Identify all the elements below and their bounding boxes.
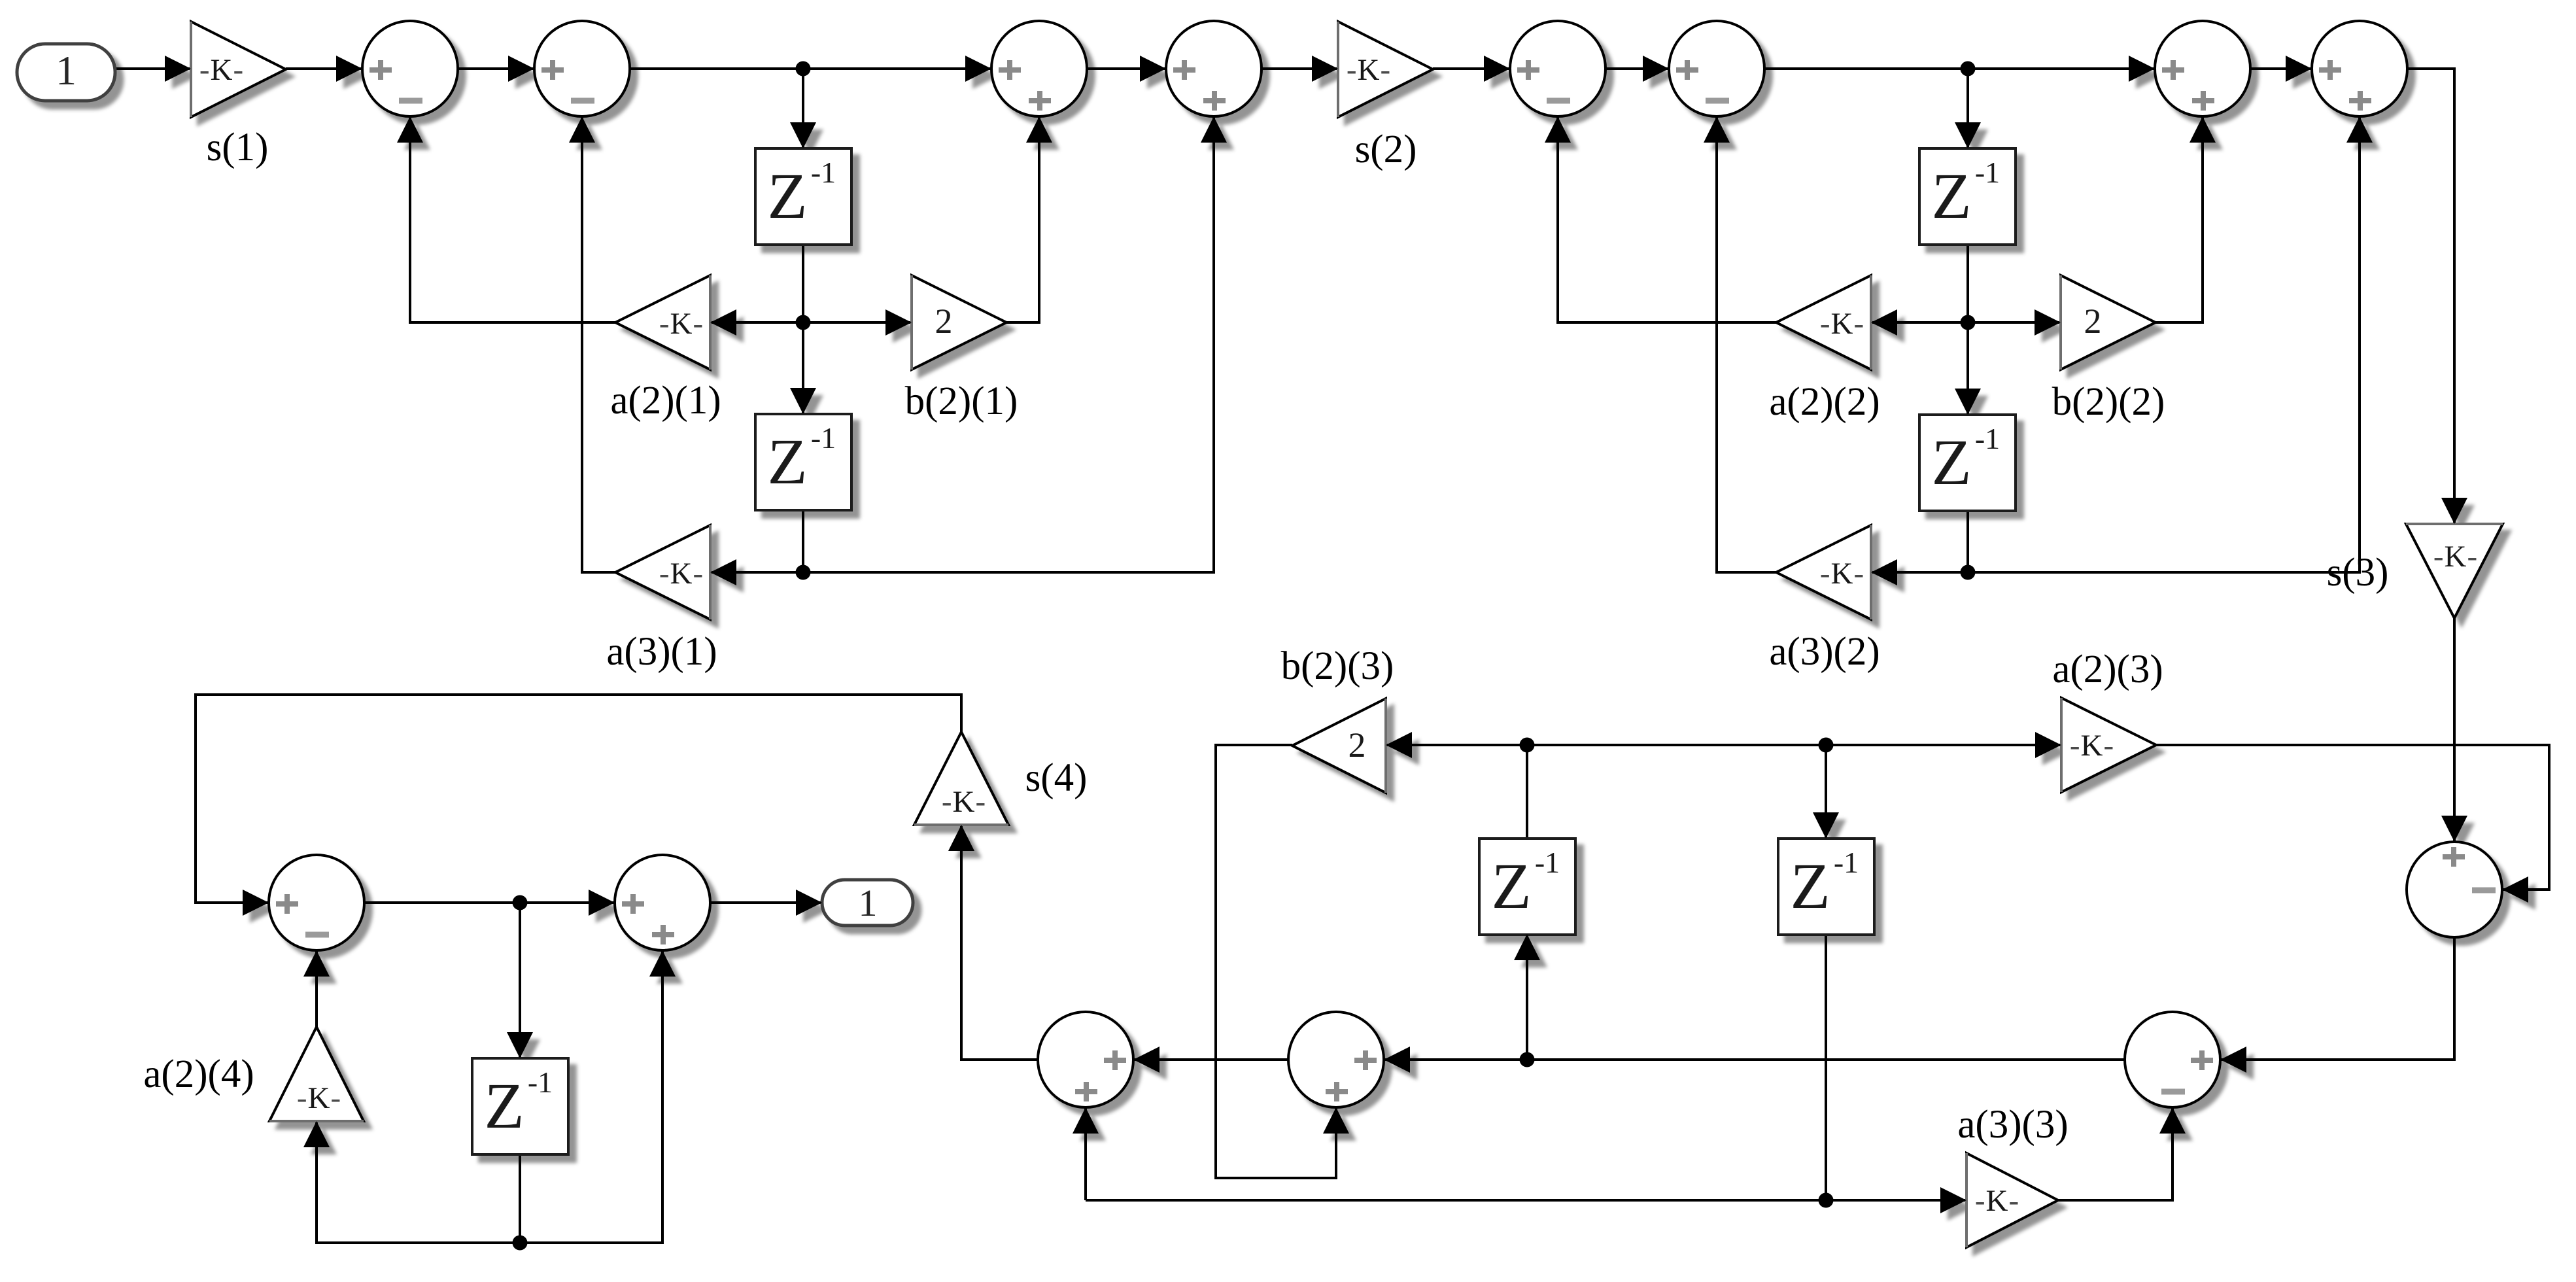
- svg-text:a(2)(1): a(2)(1): [610, 379, 721, 423]
- arrow into S3 bottom: [1026, 116, 1052, 143]
- arrow into S10 bottom: [649, 950, 676, 977]
- arrow into S12 bottom: [1323, 1107, 1349, 1134]
- junction node N1: [796, 61, 811, 77]
- wire S4 to s(2): [1262, 67, 1338, 70]
- arrow into S9 bottom: [303, 950, 330, 977]
- sign + of S9 (L): [276, 894, 298, 914]
- sum block S8: [2312, 21, 2407, 116]
- wire S8 to s(3): [2407, 69, 2454, 524]
- wire node N5 to S4: [803, 116, 1214, 572]
- sign + of S3 (B): [1029, 91, 1051, 111]
- wire Z5 to node N12: [519, 1154, 521, 1243]
- svg-text:a(2)(3): a(2)(3): [2052, 648, 2163, 691]
- wire S11 to s(4): [961, 825, 1038, 1060]
- svg-text:-K-: -K-: [1820, 557, 1864, 591]
- arrow into S11 bottom: [1073, 1107, 1099, 1134]
- sign - of S14 (B): [2161, 1089, 2185, 1095]
- sum block S2: [534, 21, 630, 116]
- wire a(2)(1) to S1: [410, 116, 615, 322]
- svg-text:-K-: -K-: [659, 557, 704, 591]
- wire S2 to S3 via node N1: [630, 67, 991, 70]
- input port In1: [17, 44, 115, 101]
- arrow into b(2)(1): [885, 309, 912, 336]
- arrow into a(2)(4): [303, 1121, 330, 1147]
- arrow into s(3): [2441, 498, 2467, 524]
- sign + of S10 (B): [652, 925, 674, 944]
- gain block b(2)(2): [2061, 275, 2155, 370]
- sign + of S11 (R): [1104, 1050, 1126, 1070]
- sign + of S7 (B): [2192, 91, 2214, 111]
- gain block a(2)(3): [2061, 698, 2156, 792]
- delay block Z4 z^-1: [1919, 415, 2016, 511]
- sign + of S14 (R): [2191, 1050, 2213, 1070]
- svg-text:-1: -1: [1535, 846, 1560, 879]
- svg-text:s(1): s(1): [207, 126, 269, 169]
- wire node N12 to a(2)(4): [317, 1121, 520, 1243]
- svg-text:-1: -1: [811, 156, 836, 189]
- sign + of S13 (T): [2443, 847, 2465, 867]
- wire b(2)(1) to S3: [1006, 116, 1039, 322]
- gain block a(3)(2): [1776, 525, 1871, 619]
- sum block S12: [1288, 1012, 1384, 1107]
- svg-text:a(3)(3): a(3)(3): [1957, 1103, 2068, 1147]
- gain block b(2)(3): [1292, 699, 1386, 793]
- svg-text:Z: Z: [1491, 850, 1531, 922]
- wire S10 to out1: [710, 901, 822, 904]
- arrow into S2: [508, 56, 534, 82]
- svg-text:-K-: -K-: [659, 307, 704, 341]
- output port Out1: [822, 880, 913, 926]
- arrow into a(3)(1): [710, 559, 736, 585]
- sign + of S1 (L): [369, 60, 392, 80]
- wire a(2)(3) to S13: [2156, 745, 2549, 890]
- sum block S13: [2407, 842, 2502, 937]
- arrow into S8 bottom: [2346, 116, 2373, 143]
- wire Z1 to Z2 via node N3: [802, 245, 804, 414]
- arrow into S5: [1484, 56, 1510, 82]
- svg-text:-K-: -K-: [199, 53, 244, 87]
- wire b(2)(3) to S12: [1216, 745, 1336, 1178]
- svg-text:s(2): s(2): [1355, 128, 1417, 171]
- wire node N8 down to Z7: [1825, 745, 1827, 839]
- wire S13 to S14: [2220, 937, 2454, 1060]
- sign + of S2 (L): [541, 60, 564, 80]
- sum block S7: [2155, 21, 2250, 116]
- sign + of S11 (B): [1075, 1082, 1097, 1101]
- arrow into S10 left: [589, 890, 615, 916]
- sign + of S12 (B): [1326, 1082, 1348, 1101]
- gain block a(2)(4): [269, 1027, 364, 1121]
- wire S7 to S8: [2250, 67, 2312, 70]
- sign - of S9 (B): [305, 932, 329, 938]
- arrow into S6 bottom: [1704, 116, 1730, 143]
- gain block a(3)(3): [1966, 1153, 2058, 1247]
- wire Z2 to node N5: [802, 510, 804, 572]
- arrow into S6: [1643, 56, 1669, 82]
- svg-text:-1: -1: [1975, 422, 2000, 455]
- wire node N3 to b(2)(1): [803, 321, 912, 324]
- junction node N12: [513, 1236, 528, 1251]
- wire a(3)(1) to S2: [582, 116, 615, 572]
- arrow into S11 right: [1133, 1047, 1159, 1073]
- arrow into S4 bottom: [1201, 116, 1227, 143]
- svg-text:b(2)(2): b(2)(2): [2052, 380, 2165, 424]
- svg-text:-1: -1: [528, 1065, 553, 1099]
- wire s(3) to S13: [2453, 618, 2456, 842]
- wire net up to S11: [1084, 1107, 1087, 1200]
- wire node N6 to a(3)(2): [1871, 571, 1968, 574]
- sum block S10: [615, 855, 710, 950]
- sign - of S13 (R): [2472, 888, 2496, 893]
- wire node N7 to b(2)(3): [1386, 744, 1527, 746]
- arrow into b(2)(2): [2035, 309, 2061, 336]
- wire node N4 to b(2)(2): [1968, 321, 2061, 324]
- wire S1 to S2: [458, 67, 534, 70]
- sign - of S5 (B): [1547, 98, 1570, 104]
- sum block S9: [269, 855, 364, 950]
- arrow into S9 left: [243, 890, 269, 916]
- svg-text:Z: Z: [767, 160, 807, 232]
- svg-text:Z: Z: [767, 425, 807, 498]
- gain block s(2): [1338, 22, 1433, 117]
- wire node N7 to a(2)(3) via node N8: [1527, 744, 2061, 746]
- sign + of S7 (L): [2162, 60, 2184, 80]
- delay block Z6 z^-1: [1479, 839, 1575, 935]
- arrow into a(3)(3): [1940, 1187, 1966, 1213]
- wire a(3)(2) to S6: [1717, 116, 1776, 572]
- svg-text:-K-: -K-: [1347, 53, 1391, 87]
- svg-text:Z: Z: [484, 1069, 524, 1142]
- svg-text:-1: -1: [811, 421, 836, 455]
- arrow into S12 right: [1384, 1047, 1410, 1073]
- wire S9 to S10 via node N11: [364, 901, 615, 904]
- arrow into out1: [796, 890, 822, 916]
- junction node N6: [1961, 565, 1976, 580]
- svg-text:-K-: -K-: [297, 1081, 341, 1115]
- wire node N9 up to Z6: [1526, 934, 1528, 1060]
- wire s(1) to S1: [286, 67, 362, 70]
- wire Z7 to node N10: [1825, 934, 1827, 1200]
- svg-text:b(2)(3): b(2)(3): [1281, 644, 1394, 688]
- sign + of S6 (L): [1676, 60, 1698, 80]
- svg-text:Z: Z: [1931, 160, 1971, 232]
- svg-text:a(3)(1): a(3)(1): [606, 630, 717, 674]
- junction node N7: [1520, 738, 1535, 753]
- svg-text:2: 2: [935, 302, 953, 341]
- sum block S4: [1166, 21, 1262, 116]
- sign + of S4 (B): [1203, 91, 1226, 111]
- svg-text:-K-: -K-: [942, 785, 986, 819]
- delay block Z5 z^-1: [472, 1058, 568, 1154]
- arrow into S13 right: [2502, 876, 2528, 903]
- sign + of S12 (R): [1354, 1050, 1377, 1070]
- gain block a(2)(2): [1776, 275, 1871, 370]
- svg-text:b(2)(1): b(2)(1): [905, 379, 1018, 423]
- arrow into s(1): [165, 56, 191, 82]
- wire node N3 to a(2)(1): [710, 321, 803, 324]
- junction node N2: [1961, 61, 1976, 77]
- junction node N10: [1819, 1193, 1834, 1208]
- arrow into a(2)(2): [1871, 309, 1897, 336]
- wire Z3 to Z4 via node N4: [1966, 245, 1969, 415]
- svg-text:2: 2: [2084, 302, 2102, 341]
- sign + of S3 (L): [999, 60, 1021, 80]
- arrow into S5 bottom: [1545, 116, 1571, 143]
- arrow into Z4: [1955, 389, 1981, 415]
- sum block S6: [1669, 21, 1764, 116]
- svg-text:Z: Z: [1931, 426, 1971, 498]
- wire S14 to S12 via node N9: [1384, 1058, 2125, 1061]
- sign + of S4 (L): [1173, 60, 1195, 80]
- delay block Z3 z^-1: [1919, 148, 2016, 245]
- delay block Z2 z^-1: [755, 414, 851, 510]
- sum block S1: [362, 21, 458, 116]
- wire in1 to s(1): [114, 67, 191, 70]
- arrow into s(2): [1312, 56, 1338, 82]
- sum block S3: [991, 21, 1087, 116]
- wire s(4) to S9: [196, 695, 961, 903]
- arrow into S2 bottom: [569, 116, 595, 143]
- junction node N11: [513, 895, 528, 910]
- sign + of S8 (L): [2319, 60, 2341, 80]
- svg-text:1: 1: [859, 882, 878, 924]
- wire b(2)(2) to S7: [2155, 116, 2203, 322]
- sign - of S1 (B): [399, 98, 422, 104]
- arrow into a(3)(2): [1871, 559, 1897, 585]
- junction node N9: [1520, 1052, 1535, 1067]
- svg-text:2: 2: [1348, 725, 1366, 765]
- arrow into S14 right: [2220, 1047, 2246, 1073]
- arrow into Z5: [507, 1032, 533, 1058]
- arrow into S7: [2129, 56, 2155, 82]
- svg-text:a(2)(4): a(2)(4): [143, 1052, 254, 1096]
- svg-text:a(3)(2): a(3)(2): [1769, 630, 1880, 674]
- svg-text:Z: Z: [1790, 850, 1830, 922]
- svg-text:a(2)(2): a(2)(2): [1769, 380, 1880, 424]
- arrow into b(2)(3): [1386, 732, 1412, 758]
- wire node N11 down to Z5: [519, 903, 521, 1058]
- sign + of S10 (L): [622, 894, 644, 914]
- junction node N3: [796, 315, 811, 330]
- sum block S11: [1038, 1012, 1133, 1107]
- sign + of S5 (L): [1517, 60, 1539, 80]
- svg-text:-K-: -K-: [2070, 729, 2114, 763]
- arrow into Z1: [790, 122, 816, 148]
- gain block s(3): [2406, 524, 2503, 618]
- svg-text:-K-: -K-: [2433, 540, 2478, 574]
- wire Z4 to node N6: [1966, 511, 1969, 572]
- wire a(2)(2) to S5: [1558, 116, 1776, 322]
- gain block b(2)(1): [912, 275, 1006, 370]
- svg-text:-K-: -K-: [1975, 1184, 2019, 1218]
- gain block a(2)(1): [615, 275, 710, 370]
- wire a(3)(3) to S14: [2058, 1107, 2172, 1200]
- svg-text:-1: -1: [1975, 156, 2000, 189]
- arrow into S13 top: [2441, 816, 2467, 842]
- arrow into s(4): [948, 825, 974, 851]
- arrow into a(2)(3): [2035, 732, 2061, 758]
- delay block Z1 z^-1: [755, 148, 851, 245]
- wire S6 to S7 via node N2: [1764, 67, 2155, 70]
- svg-text:-K-: -K-: [1820, 307, 1864, 341]
- wire node N6 to S8: [1968, 116, 2360, 572]
- arrow into Z7: [1813, 812, 1839, 839]
- wire node N4 to a(2)(2): [1871, 321, 1968, 324]
- svg-text:s(4): s(4): [1025, 756, 1088, 800]
- gain block s(1): [191, 22, 286, 117]
- arrow into Z3: [1955, 122, 1981, 148]
- wire S12 to S11: [1133, 1058, 1288, 1061]
- arrow into S8: [2286, 56, 2312, 82]
- arrow into a(2)(1): [710, 309, 736, 336]
- gain block a(3)(1): [615, 525, 710, 619]
- wire node N1 down to Z1: [802, 69, 804, 148]
- sum block S14: [2125, 1012, 2220, 1107]
- sum block S5: [1510, 21, 1606, 116]
- arrow into S14 bottom: [2159, 1107, 2186, 1134]
- arrow into Z2: [790, 388, 816, 414]
- junction node N4: [1961, 315, 1976, 330]
- wire a(2)(4) to S9: [315, 950, 318, 1027]
- sign - of S6 (B): [1706, 98, 1729, 104]
- gain block s(4): [914, 732, 1008, 825]
- arrow into Z6: [1514, 934, 1540, 960]
- svg-text:-1: -1: [1834, 846, 1859, 879]
- svg-text:s(3): s(3): [2327, 551, 2389, 595]
- wire node N12 to S10: [520, 950, 662, 1243]
- sign + of S8 (B): [2349, 91, 2371, 111]
- sign - of S2 (B): [571, 98, 594, 104]
- wire S5 to S6: [1606, 67, 1669, 70]
- junction node N5: [796, 565, 811, 580]
- wire node N2 down to Z3: [1966, 69, 1969, 148]
- junction node N8: [1819, 738, 1834, 753]
- arrow into S1: [336, 56, 362, 82]
- arrow into S3: [965, 56, 991, 82]
- wire node N5 to a(3)(1): [710, 571, 803, 574]
- wire s(2) to S5: [1433, 67, 1510, 70]
- svg-text:1: 1: [56, 47, 77, 94]
- arrow into S1 bottom: [397, 116, 423, 143]
- arrow into S4: [1140, 56, 1166, 82]
- arrow into S7 bottom: [2190, 116, 2216, 143]
- delay block Z7 z^-1: [1778, 839, 1874, 935]
- wire Z6 to node N7: [1526, 745, 1528, 839]
- wire net to a(3)(3) via node N10: [1086, 1199, 1966, 1202]
- wire S3 to S4: [1087, 67, 1166, 70]
